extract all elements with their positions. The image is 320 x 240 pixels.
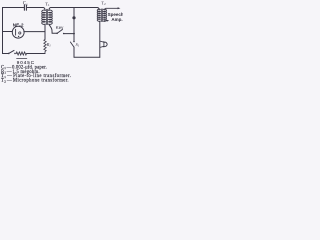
capacitor C1	[23, 2, 28, 11]
svg-text:T2 — Microphone transformer.: T2 — Microphone transformer.	[1, 79, 69, 84]
wire right rail	[99, 21, 101, 57]
key switch	[56, 25, 65, 34]
wire tube to R1 node	[24, 31, 45, 33]
node blob on middle rail	[72, 16, 75, 19]
wire middle rail upper	[73, 8, 75, 34]
node junction on rail	[73, 33, 75, 35]
label To Speech Amp	[108, 12, 124, 22]
wire key to S1 rail	[64, 33, 74, 35]
wire top middle	[27, 8, 45, 11]
switch S1	[70, 34, 79, 58]
svg-text:R1: R1	[46, 42, 52, 48]
wire bottom-right	[74, 56, 100, 58]
transformer T2	[97, 0, 106, 21]
svg-text:9045C: 9045C	[17, 60, 35, 65]
svg-text:C1: C1	[23, 2, 28, 7]
figure number 9045C	[17, 59, 35, 65]
tube NE-2	[12, 22, 24, 38]
wire left rail to tube	[3, 31, 13, 33]
svg-text:S1: S1	[76, 42, 80, 48]
wire T2 secondary to speech amp with arrow	[104, 7, 120, 21]
switch (battery switch) on bottom wire	[8, 50, 16, 54]
transformer T1	[42, 1, 53, 24]
wire top right horizontal	[49, 8, 99, 11]
resistor R1	[44, 24, 51, 53]
resistor (unlabeled, bottom wire)	[16, 52, 26, 55]
wire bottom-left to R1	[27, 53, 45, 55]
wire T1 secondary bottom to key	[49, 24, 57, 33]
svg-text:Amp.: Amp.	[111, 17, 122, 22]
microphone	[100, 41, 107, 47]
svg-text:T1: T1	[45, 1, 50, 7]
wire top-left horizontal	[3, 7, 24, 9]
svg-text:Key: Key	[56, 25, 64, 30]
wire bottom-left	[3, 53, 9, 55]
svg-text:T2: T2	[101, 0, 106, 6]
wire left rail	[2, 8, 4, 54]
